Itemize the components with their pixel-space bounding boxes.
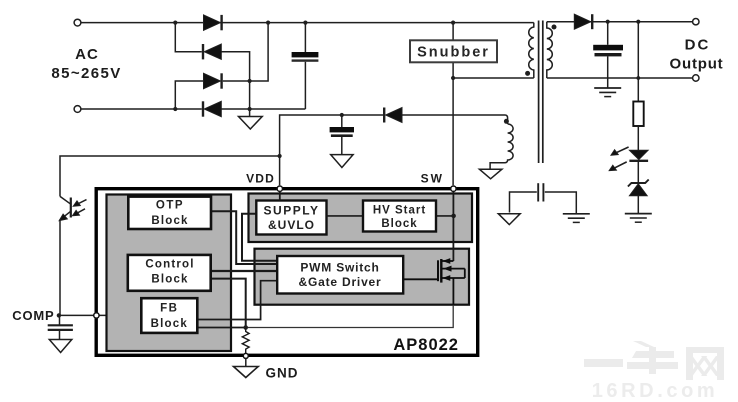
wire: VDD rail with auxiliary feed: [280, 115, 383, 185]
transistor Q2 power MOSFET: [403, 259, 465, 305]
transformer T1 primary winding: [529, 23, 534, 78]
wire: AC bottom rail: [81, 108, 202, 110]
svg-text:GND: GND: [266, 365, 299, 380]
ground: bridge minus: [239, 109, 263, 129]
svg-text:Block: Block: [151, 318, 188, 330]
capacitor C2 VDD: [330, 115, 354, 155]
transformer auxiliary winding: [490, 124, 513, 169]
svg-text:PWM Switch: PWM Switch: [300, 261, 379, 275]
capacitor C4 Y-cap: [510, 183, 577, 214]
svg-text:DC: DC: [685, 36, 711, 53]
diode D5 output rectifier: [574, 14, 592, 29]
wire: HV Start to SW line: [436, 215, 454, 217]
capacitor C1 bulk: [292, 23, 319, 109]
wire: primary bottom lead: [453, 77, 534, 79]
svg-text:Snubber: Snubber: [417, 45, 490, 61]
diode D3 bridge third: [204, 73, 222, 88]
svg-text:COMP: COMP: [12, 308, 54, 323]
terminal: AC line bottom: [74, 106, 81, 113]
wire: FB to sense node: [197, 327, 246, 329]
node primary bottom / SW: [451, 76, 455, 80]
wire: D6 anode to aux winding: [402, 115, 508, 124]
label: DC Output: [670, 36, 724, 72]
svg-text:FB: FB: [160, 302, 178, 314]
resistor R1 feedback: [633, 102, 643, 127]
IC middle gray box: [255, 249, 470, 305]
node top rail at C1: [303, 21, 307, 25]
wire: VDD pin to SUPPLY: [279, 191, 281, 200]
zener diode Z1: [628, 180, 649, 214]
wire: D2 anode down to minus node: [221, 52, 249, 109]
node top rail at snubber: [451, 21, 455, 25]
wire: sense line to MOSFET source: [246, 278, 454, 328]
block: FB: [141, 298, 197, 333]
node COMP: [57, 313, 61, 317]
ground: aux winding: [479, 169, 502, 179]
svg-text:HV Start: HV Start: [373, 204, 426, 216]
wire: OTP to PWM: [211, 211, 277, 264]
node plus rail at feedback branch: [636, 20, 640, 24]
watermark logo 一牛网: [584, 341, 724, 380]
svg-text:AP8022: AP8022: [393, 336, 459, 354]
svg-text:SUPPLY: SUPPLY: [264, 203, 320, 217]
pin COMP: [94, 313, 99, 318]
pin VDD: [277, 186, 282, 191]
node VDD rail at C2: [340, 113, 344, 117]
node on top rail at x175: [173, 21, 177, 25]
node: secondary phase dot: [552, 25, 557, 30]
wire: GND pin lead: [245, 358, 247, 366]
terminal: DC output plus: [693, 19, 699, 25]
wire: secondary return to output: [547, 77, 693, 79]
diode D2 bridge second: [203, 44, 221, 59]
node VDD rail tap: [278, 154, 282, 158]
diode D1 bridge top: [204, 15, 222, 30]
capacitor C5 COMP: [48, 315, 73, 339]
LED D7 optocoupler emitter: [609, 147, 648, 171]
svg-text:&UVLO: &UVLO: [268, 218, 315, 232]
svg-text:Block: Block: [151, 215, 188, 227]
wire: SUPPLY to PWM: [242, 214, 277, 261]
node crossing on return wire: [636, 76, 640, 80]
snubber box: [410, 40, 497, 62]
svg-text:Block: Block: [381, 218, 417, 230]
svg-text:AC: AC: [75, 46, 99, 63]
svg-text:16RD.com: 16RD.com: [592, 380, 719, 402]
block: SUPPLY UVLO: [256, 201, 326, 235]
wire: AC top to D2 row: [175, 23, 202, 52]
pin GND: [243, 353, 248, 358]
node: aux phase dot: [504, 119, 509, 124]
node on bottom rail at x175: [173, 107, 177, 111]
svg-text:OTP: OTP: [156, 199, 184, 211]
wire: secondary top lead to output: [547, 21, 693, 23]
ground: VDD cap: [331, 155, 353, 168]
node SW line at HV start: [451, 214, 456, 219]
svg-text:VDD: VDD: [246, 171, 275, 185]
node sense: [243, 325, 248, 330]
terminal: DC output minus: [693, 75, 699, 81]
svg-text:Block: Block: [151, 274, 188, 286]
wire: AC top rail: [81, 22, 534, 24]
block: HV Start: [363, 201, 436, 232]
node D3 line crossing: [248, 79, 252, 83]
IC inner left gray box: [107, 195, 232, 352]
svg-text:85~265V: 85~265V: [51, 65, 121, 82]
wire: Control to PWM: [211, 270, 278, 272]
wire: bridge minus rail: [221, 108, 305, 110]
svg-text:&Gate Driver: &Gate Driver: [299, 275, 382, 289]
transformer core: [539, 21, 543, 164]
earth ground: zener: [625, 214, 652, 223]
node top rail at x268: [266, 21, 270, 25]
wire: AC bottom to D3 row: [175, 81, 203, 109]
wire: snubber / SW vertical: [452, 23, 454, 186]
capacitor C3 output: [593, 22, 623, 88]
ground: Y-cap left: [498, 214, 520, 225]
wire: Control to sense node: [211, 279, 246, 328]
diode D6 VDD rectifier: [384, 108, 402, 123]
wire: D3 cathode up to plus rail: [223, 23, 268, 81]
label: AC 85~265V: [51, 46, 121, 82]
wire: feedback branch from plus rail: [637, 22, 639, 102]
svg-text:Output: Output: [670, 55, 724, 72]
earth ground: output cap: [594, 88, 621, 97]
IC AP8022 outer box: [96, 189, 478, 356]
block: OTP: [128, 197, 211, 229]
wire: resistor to LED: [637, 126, 639, 150]
pin SW: [451, 186, 456, 191]
node bridge minus junction: [248, 107, 252, 111]
block: Control: [128, 255, 211, 291]
svg-text:SW: SW: [421, 171, 444, 185]
node top at C3: [606, 20, 610, 24]
earth ground: Y-cap right: [563, 214, 590, 223]
diode D4 bridge bottom: [203, 101, 221, 116]
wire: SW pin down to MOSFET drain: [452, 189, 454, 261]
svg-text:Control: Control: [145, 258, 194, 270]
wire: SUPPLY to HV Start: [327, 215, 364, 217]
phototransistor Q1 optocoupler: [59, 196, 86, 220]
wire: FB to PWM: [197, 281, 277, 320]
wire: COMP node to FB block: [59, 314, 141, 316]
resistor R2 sense: [242, 328, 249, 354]
transformer T1 secondary winding: [547, 22, 553, 78]
wire: phototransistor collector to VDD rail: [60, 156, 280, 196]
node: primary phase dot: [525, 71, 530, 76]
ground: GND pin: [234, 367, 259, 378]
wire: emitter down to COMP node: [59, 219, 61, 315]
IC top gray box: [249, 194, 473, 243]
ground: COMP cap: [49, 340, 72, 353]
wire: LED to zener: [637, 162, 639, 183]
block: PWM Switch Gate Driver: [277, 256, 403, 294]
terminal: AC line top: [74, 19, 81, 26]
